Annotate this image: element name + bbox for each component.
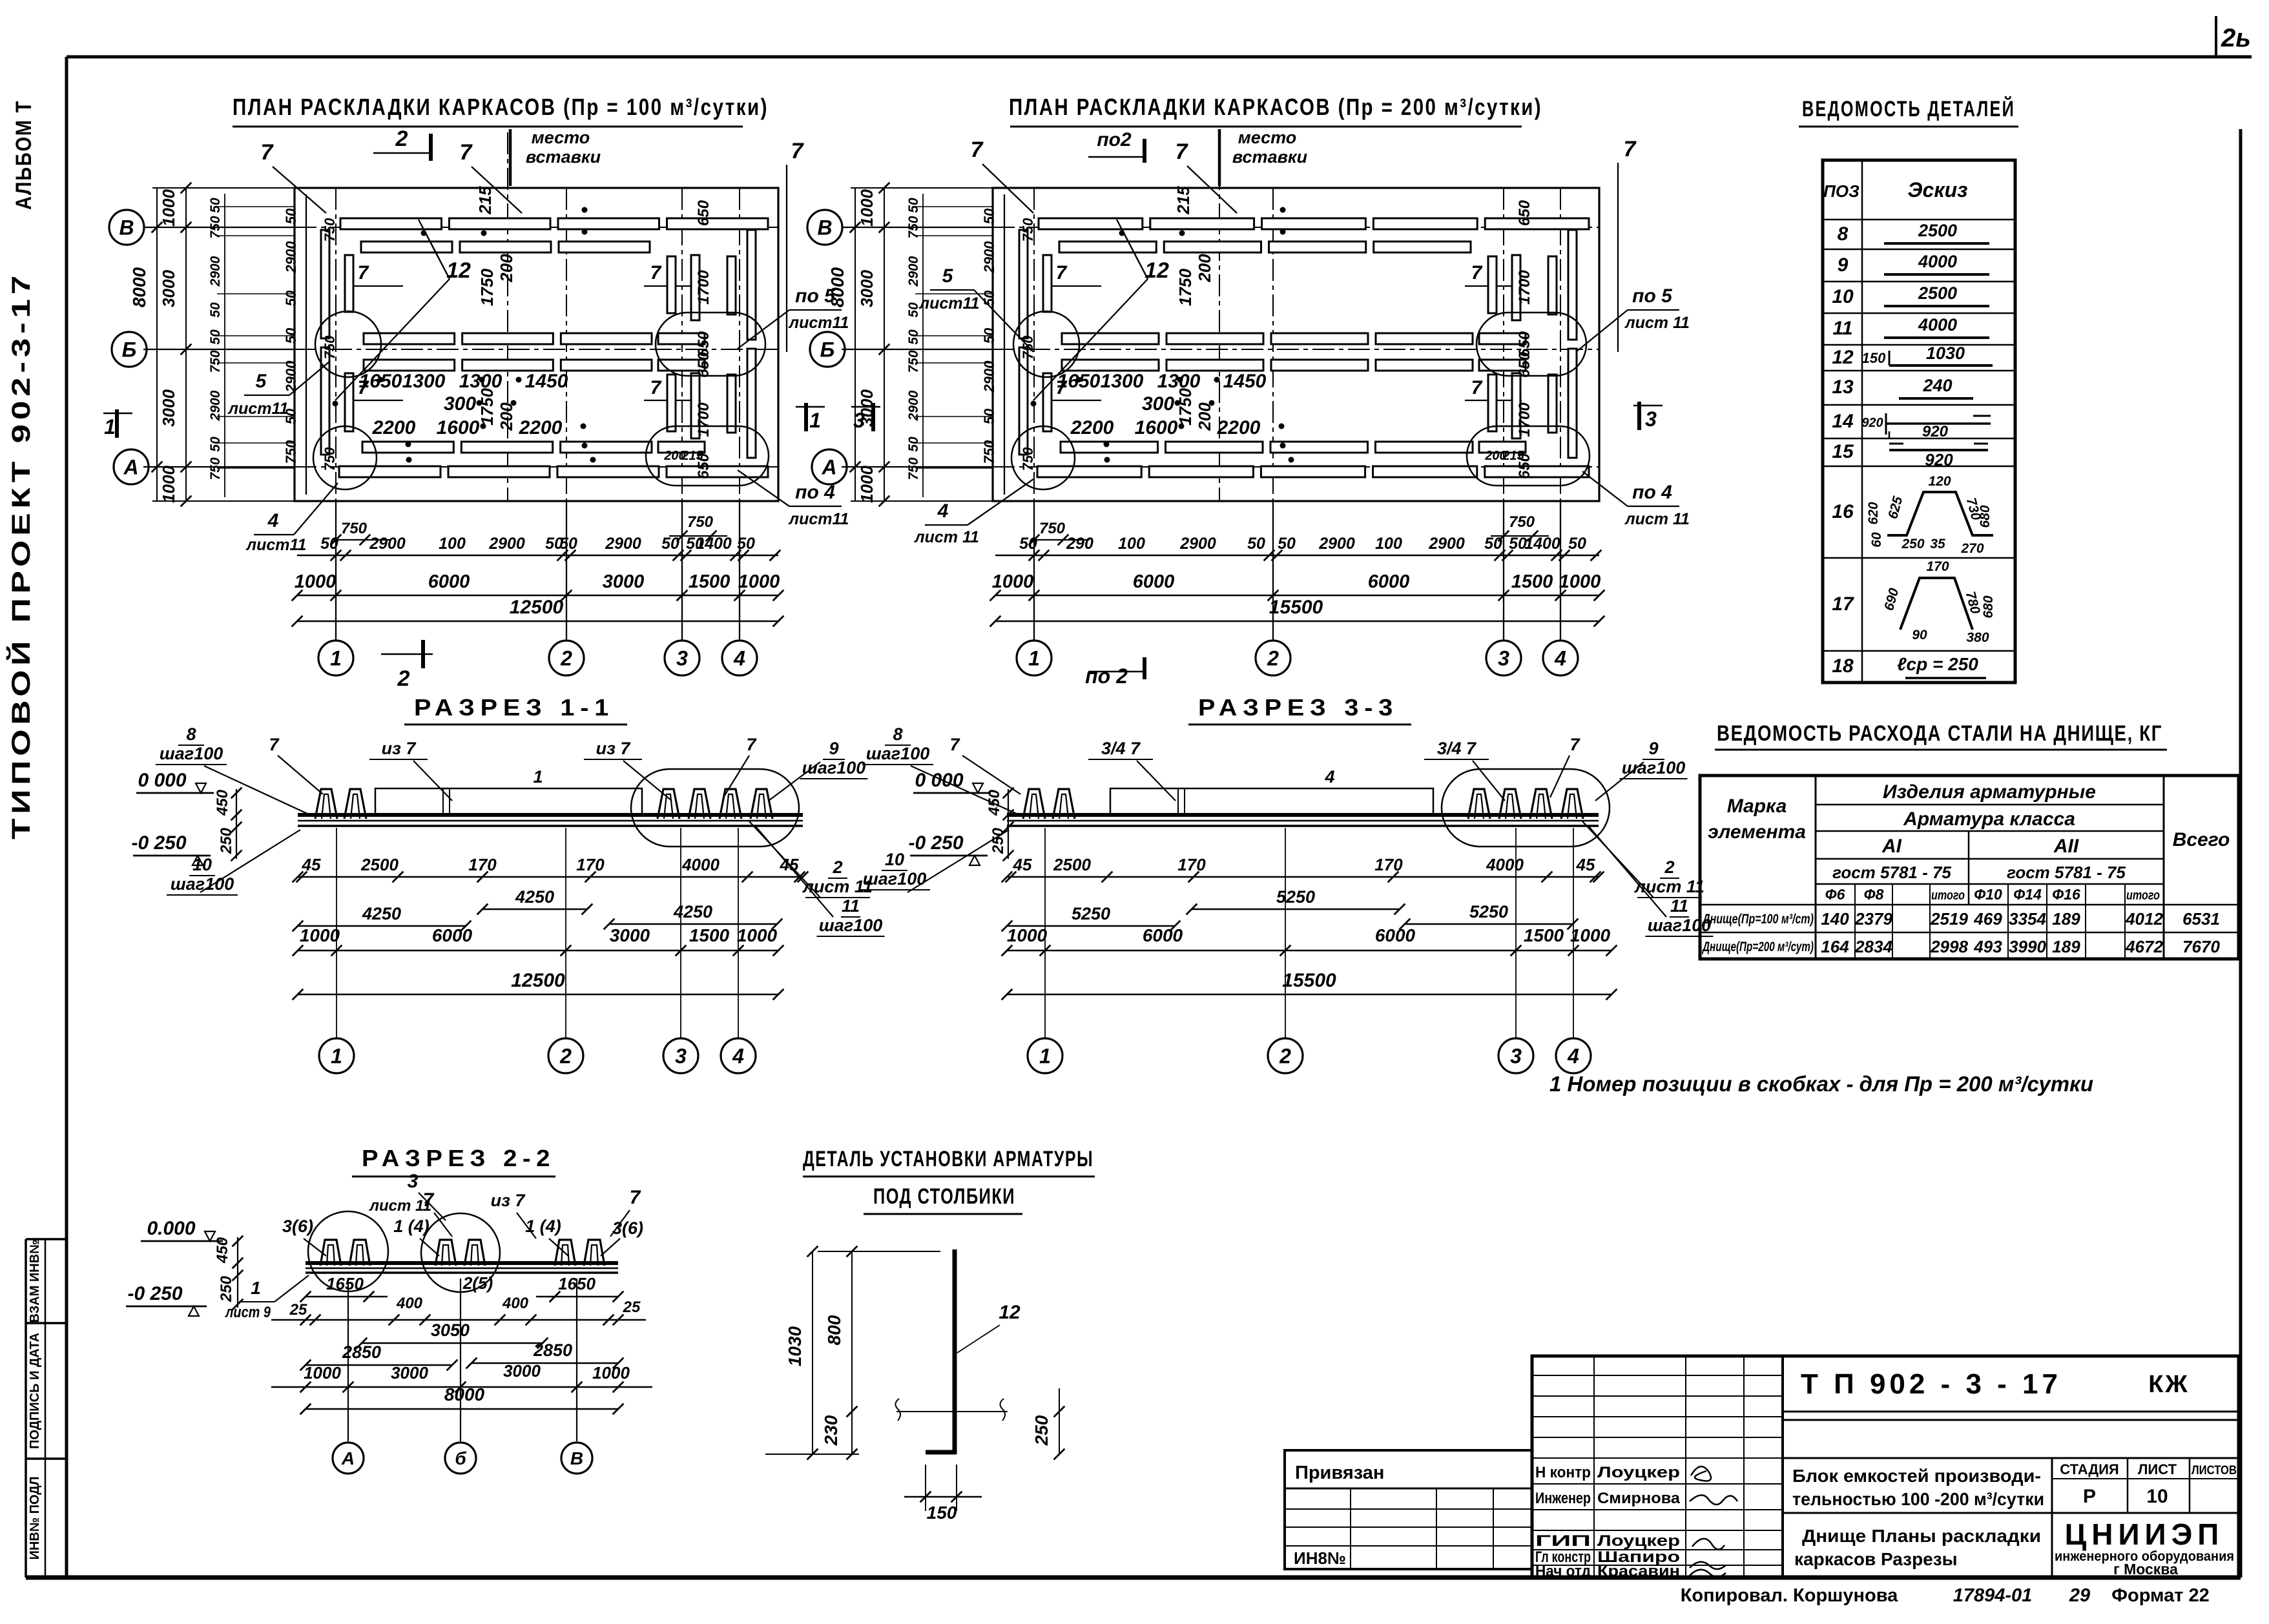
svg-text:1650: 1650 bbox=[326, 1274, 364, 1293]
svg-text:3990: 3990 bbox=[2009, 937, 2046, 956]
svg-text:1450: 1450 bbox=[525, 371, 568, 392]
section mark 2 top plan1 bbox=[373, 152, 431, 154]
rect edge extensions bbox=[851, 187, 993, 189]
SECTION 1-1 leaders bbox=[204, 766, 310, 815]
svg-text:0 000: 0 000 bbox=[915, 770, 963, 791]
svg-text:2900: 2900 bbox=[605, 535, 641, 553]
plan left dim chains bbox=[185, 188, 187, 501]
svg-text:50: 50 bbox=[906, 329, 921, 345]
svg-text:2500: 2500 bbox=[360, 855, 399, 874]
svg-text:Ф14: Ф14 bbox=[2013, 886, 2042, 903]
svg-text:60: 60 bbox=[1869, 532, 1884, 548]
svg-text:по2: по2 bbox=[1097, 129, 1132, 150]
svg-text:Копировал. Коршунова: Копировал. Коршунова bbox=[1681, 1585, 1898, 1606]
svg-text:100: 100 bbox=[439, 535, 466, 553]
svg-text:90: 90 bbox=[1912, 628, 1927, 642]
svg-text:8000: 8000 bbox=[827, 267, 847, 307]
svg-text:750: 750 bbox=[1039, 520, 1066, 537]
svg-text:18: 18 bbox=[1832, 655, 1854, 677]
svg-text:1 Номер позиции в скобках -: 1 Номер позиции в скобках - для Пр = 200… bbox=[1549, 1072, 2093, 1096]
svg-text:4250: 4250 bbox=[362, 904, 401, 923]
svg-text:Днище(Пр=200 м³/сут): Днище(Пр=200 м³/сут) bbox=[1702, 940, 1814, 954]
svg-text:1030: 1030 bbox=[1926, 344, 1965, 363]
svg-text:2900: 2900 bbox=[1428, 535, 1465, 553]
plan outer rect bbox=[993, 188, 1599, 501]
svg-text:170: 170 bbox=[1926, 559, 1949, 574]
svg-text:А: А bbox=[341, 1448, 355, 1468]
svg-text:250: 250 bbox=[218, 1275, 235, 1302]
svg-text:лист 11: лист 11 bbox=[1624, 510, 1690, 528]
section marks 1 and 3 left and between plans bbox=[103, 413, 132, 415]
svg-text:Красавин: Красавин bbox=[1597, 1563, 1680, 1580]
svg-text:1000: 1000 bbox=[738, 571, 780, 592]
svg-text:215: 215 bbox=[475, 186, 495, 215]
svg-text:1000: 1000 bbox=[737, 925, 778, 945]
svg-text:10: 10 bbox=[885, 850, 904, 869]
svg-text:3/4 7: 3/4 7 bbox=[1101, 739, 1141, 758]
svg-text:Р: Р bbox=[2083, 1486, 2096, 1507]
axis circles bbox=[1044, 828, 1046, 1038]
svg-text:7: 7 bbox=[746, 735, 757, 754]
svg-text:15500: 15500 bbox=[1269, 597, 1323, 618]
svg-text:11: 11 bbox=[842, 896, 860, 916]
svg-text:8: 8 bbox=[1838, 223, 1849, 245]
DETAILS TABLE row17 sketch bbox=[1900, 578, 1973, 630]
svg-text:шаг100: шаг100 bbox=[1622, 758, 1685, 777]
svg-text:3000: 3000 bbox=[603, 571, 645, 592]
svg-text:5250: 5250 bbox=[1276, 887, 1315, 907]
svg-text:б: б bbox=[455, 1448, 466, 1468]
svg-text:лист11: лист11 bbox=[246, 536, 307, 554]
svg-text:1400: 1400 bbox=[1524, 535, 1560, 553]
svg-text:4: 4 bbox=[1554, 647, 1566, 670]
svg-text:250: 250 bbox=[218, 827, 235, 854]
svg-text:из 7: из 7 bbox=[596, 739, 632, 758]
svg-text:215: 215 bbox=[1174, 186, 1193, 215]
svg-text:В: В bbox=[817, 216, 832, 240]
svg-text:150: 150 bbox=[1862, 350, 1886, 366]
DETAIL dims bbox=[812, 1251, 813, 1454]
svg-text:1700: 1700 bbox=[1516, 402, 1533, 437]
svg-text:7: 7 bbox=[269, 735, 280, 754]
svg-text:2: 2 bbox=[1267, 647, 1279, 670]
plan outer rect bbox=[295, 188, 778, 501]
svg-text:1500: 1500 bbox=[689, 571, 730, 592]
svg-text:650: 650 bbox=[695, 351, 712, 378]
svg-text:РАЗРЕЗ 1-1: РАЗРЕЗ 1-1 bbox=[414, 694, 614, 721]
svg-text:4000: 4000 bbox=[1918, 252, 1957, 271]
svg-text:45: 45 bbox=[1576, 855, 1595, 874]
svg-text:В: В bbox=[119, 216, 134, 240]
svg-text:Инженер: Инженер bbox=[1535, 1490, 1591, 1507]
svg-text:50: 50 bbox=[1484, 535, 1502, 553]
svg-text:Всего: Всего bbox=[2173, 829, 2230, 850]
svg-text:6000: 6000 bbox=[1375, 925, 1416, 945]
svg-text:5: 5 bbox=[942, 265, 954, 287]
2-2 axis circles bbox=[347, 1279, 349, 1441]
svg-text:15500: 15500 bbox=[1282, 970, 1336, 991]
section mark 2 bottom plan1 bbox=[381, 653, 433, 655]
svg-text:Н контр: Н контр bbox=[1535, 1464, 1591, 1481]
svg-text:750: 750 bbox=[283, 440, 299, 464]
svg-text:6000: 6000 bbox=[1143, 925, 1183, 945]
svg-text:750: 750 bbox=[906, 350, 921, 373]
svg-text:ДЕТАЛЬ УСТАНОВКИ АРМАТУРЫ: ДЕТАЛЬ УСТАНОВКИ АРМАТУРЫ bbox=[803, 1147, 1093, 1171]
slab mid element bbox=[1110, 788, 1433, 815]
svg-text:ЛИСТ: ЛИСТ bbox=[2138, 1461, 2177, 1477]
svg-text:1000: 1000 bbox=[304, 1363, 341, 1382]
svg-text:50: 50 bbox=[981, 208, 997, 224]
svg-text:800: 800 bbox=[824, 1315, 844, 1345]
svg-text:7: 7 bbox=[1570, 735, 1580, 754]
svg-text:750: 750 bbox=[1020, 447, 1036, 471]
svg-text:2900: 2900 bbox=[1179, 535, 1216, 553]
svg-text:3: 3 bbox=[1645, 407, 1657, 431]
svg-text:2519: 2519 bbox=[1930, 909, 1968, 929]
svg-text:920: 920 bbox=[1861, 416, 1883, 430]
svg-text:Лоуцкер: Лоуцкер bbox=[1597, 1532, 1680, 1550]
svg-text:2ь: 2ь bbox=[2221, 24, 2251, 52]
svg-text:14: 14 bbox=[1832, 411, 1854, 432]
svg-text:лист11: лист11 bbox=[228, 400, 289, 418]
svg-text:ГИП: ГИП bbox=[1535, 1532, 1591, 1550]
svg-text:ПОДПИСЬ И ДАТА: ПОДПИСЬ И ДАТА bbox=[28, 1333, 42, 1449]
svg-text:750: 750 bbox=[906, 457, 921, 480]
svg-text:750: 750 bbox=[322, 218, 338, 242]
svg-text:50: 50 bbox=[1247, 535, 1265, 553]
svg-text:5: 5 bbox=[256, 371, 267, 392]
slab left ribs bbox=[315, 789, 337, 819]
svg-text:Изделия арматурные: Изделия арматурные bbox=[1883, 781, 2096, 803]
svg-text:750: 750 bbox=[1020, 218, 1036, 242]
svg-text:Б: Б bbox=[820, 338, 835, 362]
svg-text:3000: 3000 bbox=[857, 270, 876, 307]
svg-text:1: 1 bbox=[104, 415, 116, 438]
svg-text:3: 3 bbox=[675, 1045, 687, 1068]
svg-text:1: 1 bbox=[1039, 1045, 1051, 1068]
STEEL TABLE grid bbox=[1700, 776, 2239, 959]
svg-text:50: 50 bbox=[208, 198, 223, 213]
svg-text:шаг100: шаг100 bbox=[819, 916, 882, 935]
svg-text:0 000: 0 000 bbox=[138, 770, 186, 791]
svg-text:Привязан: Привязан bbox=[1295, 1463, 1384, 1483]
svg-text:2900: 2900 bbox=[283, 241, 299, 274]
svg-text:каркасов Разрезы: каркасов Разрезы bbox=[1794, 1549, 1958, 1569]
svg-text:8: 8 bbox=[893, 725, 902, 744]
svg-text:Марка: Марка bbox=[1727, 796, 1787, 817]
TITLE BLOCK outer bbox=[1532, 1356, 2239, 1578]
svg-text:2: 2 bbox=[560, 647, 572, 670]
svg-text:750: 750 bbox=[981, 440, 997, 464]
svg-text:4: 4 bbox=[267, 510, 279, 531]
svg-text:215: 215 bbox=[681, 449, 703, 463]
svg-text:2: 2 bbox=[1279, 1045, 1291, 1068]
svg-text:3000: 3000 bbox=[610, 925, 650, 945]
svg-text:5250: 5250 bbox=[1072, 904, 1110, 923]
svg-text:1: 1 bbox=[331, 1045, 342, 1068]
svg-text:15: 15 bbox=[1832, 441, 1854, 462]
svg-text:ПЛАН РАСКЛАДКИ КАРКАСОВ (Пр: ПЛАН РАСКЛАДКИ КАРКАСОВ (Пр = 200 м³/сут… bbox=[1009, 94, 1542, 120]
svg-text:7: 7 bbox=[1176, 139, 1189, 164]
svg-text:170: 170 bbox=[576, 855, 605, 874]
svg-text:лист 11: лист 11 bbox=[914, 528, 979, 546]
svg-text:Формат 22: Формат 22 bbox=[2111, 1585, 2210, 1606]
svg-text:493: 493 bbox=[1973, 937, 2002, 956]
signatures squiggles bbox=[1691, 1466, 1711, 1481]
svg-text:1700: 1700 bbox=[695, 270, 712, 305]
svg-text:вставки: вставки bbox=[526, 147, 601, 167]
svg-text:7: 7 bbox=[650, 377, 662, 398]
svg-text:215: 215 bbox=[1502, 449, 1524, 463]
svg-text:300: 300 bbox=[1142, 393, 1174, 415]
plan bars bbox=[1039, 218, 1143, 229]
svg-text:Днище Планы раскладки: Днище Планы раскладки bbox=[1802, 1526, 2041, 1546]
svg-text:50: 50 bbox=[1278, 535, 1296, 553]
svg-text:ИНВ№ ПОДЛ: ИНВ№ ПОДЛ bbox=[28, 1476, 42, 1559]
TITLE BLOCK doc number cell bbox=[1783, 1411, 2239, 1413]
svg-text:Блок емкостей производи-: Блок емкостей производи- bbox=[1792, 1466, 2041, 1486]
svg-text:тельностью 100 -200 м³/сутки: тельностью 100 -200 м³/сутки bbox=[1792, 1489, 2044, 1509]
inner 7 leader lines bbox=[1050, 285, 1101, 287]
svg-text:лист 11: лист 11 bbox=[1624, 314, 1690, 332]
svg-text:750: 750 bbox=[1509, 513, 1535, 531]
SECTION 3-3 leaders bbox=[911, 766, 1019, 815]
svg-text:380: 380 bbox=[1966, 630, 1989, 645]
svg-text:25: 25 bbox=[289, 1301, 307, 1319]
svg-text:7: 7 bbox=[261, 140, 275, 165]
svg-text:750: 750 bbox=[906, 216, 921, 238]
svg-text:4: 4 bbox=[937, 500, 949, 522]
svg-text:4000: 4000 bbox=[681, 855, 720, 874]
svg-text:17: 17 bbox=[1832, 593, 1854, 615]
svg-text:ВЕДОМОСТЬ РАСХОДА СТАЛИ НА ДНИ: ВЕДОМОСТЬ РАСХОДА СТАЛИ НА ДНИЩЕ, КГ bbox=[1717, 721, 2162, 746]
svg-text:1000: 1000 bbox=[592, 1363, 630, 1382]
svg-text:1: 1 bbox=[330, 647, 342, 670]
svg-text:750: 750 bbox=[322, 335, 338, 359]
svg-text:7: 7 bbox=[358, 377, 369, 398]
left chain extension lines bbox=[217, 206, 295, 207]
svg-text:50: 50 bbox=[1568, 535, 1586, 553]
svg-text:А: А bbox=[821, 456, 836, 479]
svg-text:1000: 1000 bbox=[1570, 925, 1611, 945]
svg-text:1500: 1500 bbox=[1524, 925, 1564, 945]
svg-text:29: 29 bbox=[2069, 1585, 2090, 1606]
svg-text:3354: 3354 bbox=[2009, 909, 2046, 929]
svg-text:лист 11: лист 11 bbox=[369, 1197, 431, 1215]
svg-text:лист 9: лист 9 bbox=[225, 1304, 271, 1321]
svg-text:Ф16: Ф16 bbox=[2052, 886, 2080, 903]
svg-text:2: 2 bbox=[832, 858, 842, 877]
svg-text:1000: 1000 bbox=[295, 571, 337, 592]
svg-text:из 7: из 7 bbox=[382, 739, 417, 758]
svg-text:7: 7 bbox=[1471, 262, 1483, 283]
svg-text:150: 150 bbox=[927, 1503, 957, 1523]
svg-text:ПОЗ: ПОЗ bbox=[1823, 181, 1860, 201]
plan bottom dim rows bbox=[297, 555, 778, 557]
svg-text:4: 4 bbox=[733, 647, 745, 670]
svg-text:ВЕДОМОСТЬ ДЕТАЛЕЙ: ВЕДОМОСТЬ ДЕТАЛЕЙ bbox=[1802, 96, 2015, 121]
svg-text:3: 3 bbox=[408, 1171, 419, 1192]
svg-text:50: 50 bbox=[981, 327, 997, 344]
svg-text:ТИПОВОЙ ПРОЕКТ 902-3-17: ТИПОВОЙ ПРОЕКТ 902-3-17 bbox=[6, 271, 36, 839]
svg-text:1700: 1700 bbox=[1516, 270, 1533, 305]
svg-text:1700: 1700 bbox=[695, 402, 712, 437]
plan bars bbox=[340, 218, 442, 229]
svg-text:250: 250 bbox=[1031, 1415, 1052, 1446]
svg-text:100: 100 bbox=[1375, 535, 1402, 553]
svg-text:4672: 4672 bbox=[2125, 937, 2163, 956]
outer left chain numbers bbox=[224, 194, 225, 497]
svg-text:7: 7 bbox=[630, 1187, 641, 1208]
svg-text:по 2: по 2 bbox=[1085, 664, 1128, 688]
svg-text:1000: 1000 bbox=[1007, 925, 1048, 945]
svg-text:итого: итого bbox=[1931, 889, 1965, 903]
svg-text:гост 5781 - 75: гост 5781 - 75 bbox=[2007, 863, 2126, 882]
svg-text:-0 250: -0 250 bbox=[131, 832, 186, 854]
left margin bottom stamp cells bbox=[26, 1238, 67, 1240]
svg-text:2900: 2900 bbox=[208, 390, 223, 421]
svg-text:750: 750 bbox=[341, 520, 368, 537]
svg-text:2: 2 bbox=[1664, 858, 1674, 877]
svg-text:1 (4): 1 (4) bbox=[393, 1217, 430, 1236]
svg-text:450: 450 bbox=[214, 789, 231, 816]
svg-text:шаг100: шаг100 bbox=[160, 744, 223, 763]
svg-text:2900: 2900 bbox=[488, 535, 525, 553]
svg-text:КЖ: КЖ bbox=[2148, 1371, 2190, 1398]
svg-text:9: 9 bbox=[1838, 254, 1849, 276]
svg-text:Днище(Пр=100 м³/ст): Днище(Пр=100 м³/ст) bbox=[1701, 912, 1814, 927]
svg-text:45: 45 bbox=[302, 855, 321, 874]
svg-text:СТАДИЯ: СТАДИЯ bbox=[2060, 1461, 2119, 1477]
svg-text:-0 250: -0 250 bbox=[127, 1283, 182, 1304]
svg-text:7: 7 bbox=[460, 140, 473, 165]
svg-text:164: 164 bbox=[1821, 937, 1849, 956]
svg-text:4012: 4012 bbox=[2125, 909, 2163, 929]
svg-text:4250: 4250 bbox=[673, 902, 712, 921]
svg-text:1000: 1000 bbox=[1559, 571, 1601, 592]
corner detail circles bbox=[315, 311, 381, 377]
svg-text:3000: 3000 bbox=[159, 270, 178, 307]
svg-text:3000: 3000 bbox=[159, 389, 178, 427]
svg-text:8: 8 bbox=[186, 725, 196, 744]
svg-text:элемента: элемента bbox=[1708, 821, 1806, 843]
svg-text:7: 7 bbox=[1471, 377, 1483, 398]
svg-text:189: 189 bbox=[2052, 909, 2080, 929]
svg-text:450: 450 bbox=[214, 1237, 231, 1264]
svg-text:РАЗРЕЗ 2-2: РАЗРЕЗ 2-2 bbox=[362, 1145, 555, 1171]
svg-text:170: 170 bbox=[1177, 855, 1206, 874]
svg-text:100: 100 bbox=[1118, 535, 1145, 553]
svg-text:2: 2 bbox=[395, 127, 408, 151]
svg-text:из 7: из 7 bbox=[491, 1191, 526, 1210]
svg-text:3: 3 bbox=[676, 647, 688, 670]
rect edge extensions bbox=[152, 187, 295, 189]
svg-text:1: 1 bbox=[1028, 647, 1040, 670]
svg-text:2900: 2900 bbox=[981, 241, 997, 274]
axis circles left bbox=[109, 210, 144, 245]
svg-text:1: 1 bbox=[533, 767, 543, 786]
svg-text:12: 12 bbox=[999, 1302, 1021, 1323]
svg-text:9: 9 bbox=[1648, 739, 1658, 758]
DETAIL 150 dim bbox=[925, 1465, 926, 1511]
section mark 3 right of plan2 bbox=[1633, 405, 1663, 407]
svg-text:2500: 2500 bbox=[1053, 855, 1091, 874]
TITLE BLOCK signature rows bbox=[1781, 1356, 1784, 1578]
axis circles bottom bbox=[1033, 501, 1035, 641]
svg-text:2200: 2200 bbox=[1070, 417, 1114, 438]
svg-text:7: 7 bbox=[971, 138, 984, 162]
svg-text:АI: АI bbox=[1881, 836, 1902, 857]
svg-text:3000: 3000 bbox=[503, 1361, 541, 1381]
DETAILS TABLE grid bbox=[1823, 160, 2015, 683]
svg-text:750: 750 bbox=[208, 350, 223, 373]
plan dots bbox=[421, 231, 427, 236]
svg-text:1750: 1750 bbox=[1176, 388, 1195, 426]
plan left dim chains bbox=[884, 188, 885, 501]
svg-text:Т П 902 - 3 - 17: Т П 902 - 3 - 17 bbox=[1801, 1368, 2062, 1400]
svg-text:750: 750 bbox=[208, 457, 223, 480]
svg-text:Б: Б bbox=[122, 338, 137, 362]
svg-text:1500: 1500 bbox=[1511, 571, 1553, 592]
svg-text:место: место bbox=[532, 128, 590, 147]
svg-text:гост 5781 - 75: гост 5781 - 75 bbox=[1832, 863, 1951, 882]
svg-text:680: 680 bbox=[1978, 505, 1993, 528]
svg-text:6531: 6531 bbox=[2182, 909, 2220, 929]
slab lines bbox=[298, 813, 803, 817]
privyazan sub-table bbox=[1285, 1450, 1532, 1569]
svg-text:13: 13 bbox=[1832, 376, 1854, 398]
svg-text:170: 170 bbox=[468, 855, 497, 874]
sheet frame bbox=[67, 56, 2252, 59]
2-2 ribs bbox=[320, 1240, 341, 1266]
DETAILS TABLE row16 sketch bbox=[1887, 492, 1993, 535]
svg-text:по 5: по 5 bbox=[1632, 285, 1673, 307]
svg-text:8000: 8000 bbox=[129, 267, 149, 307]
svg-text:7: 7 bbox=[1056, 262, 1068, 283]
svg-text:50: 50 bbox=[661, 535, 679, 553]
svg-text:ℓср = 250: ℓср = 250 bbox=[1897, 654, 1978, 674]
svg-text:итого: итого bbox=[2126, 889, 2160, 903]
svg-text:750: 750 bbox=[322, 447, 338, 471]
svg-text:400: 400 bbox=[502, 1295, 529, 1312]
svg-text:10: 10 bbox=[192, 855, 212, 874]
svg-text:300: 300 bbox=[444, 393, 476, 415]
svg-text:7670: 7670 bbox=[2182, 937, 2220, 956]
plan vertical bars bbox=[321, 230, 329, 338]
svg-text:2834: 2834 bbox=[1854, 937, 1892, 956]
svg-text:2900: 2900 bbox=[208, 256, 223, 287]
svg-text:4250: 4250 bbox=[515, 887, 554, 907]
svg-text:2500: 2500 bbox=[1918, 221, 1957, 240]
svg-text:-0 250: -0 250 bbox=[908, 832, 963, 854]
svg-text:7: 7 bbox=[791, 139, 805, 163]
svg-text:1750: 1750 bbox=[1176, 269, 1195, 306]
svg-text:1000: 1000 bbox=[300, 925, 340, 945]
svg-text:200: 200 bbox=[1195, 254, 1214, 283]
axis circles bottom bbox=[335, 501, 337, 641]
svg-text:4000: 4000 bbox=[1486, 855, 1524, 874]
svg-text:170: 170 bbox=[1374, 855, 1403, 874]
svg-text:50: 50 bbox=[559, 535, 577, 553]
svg-text:1000: 1000 bbox=[857, 189, 876, 227]
svg-text:РАЗРЕЗ 3-3: РАЗРЕЗ 3-3 bbox=[1198, 694, 1398, 721]
svg-text:7: 7 bbox=[358, 262, 369, 283]
svg-text:750: 750 bbox=[687, 513, 714, 531]
svg-text:8000: 8000 bbox=[444, 1384, 485, 1404]
svg-text:469: 469 bbox=[1973, 909, 2002, 929]
svg-text:лист11: лист11 bbox=[789, 314, 849, 332]
svg-text:1750: 1750 bbox=[477, 388, 497, 426]
